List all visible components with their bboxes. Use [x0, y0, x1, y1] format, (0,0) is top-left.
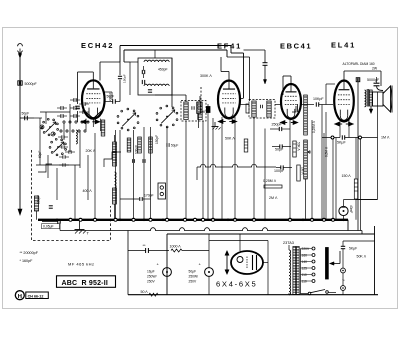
wire speaker return	[377, 106, 379, 120]
wire tuning vertical 5	[150, 127, 152, 220]
svg-text:50K Λ: 50K Λ	[225, 137, 235, 141]
capacitor 40mF electrolytic	[339, 206, 348, 215]
wire ift vertical 8	[202, 121, 204, 220]
tube EL41	[334, 81, 354, 122]
svg-text:20K Λ: 20K Λ	[86, 149, 96, 153]
junction tone a	[331, 136, 334, 139]
capacitor on AVC drop	[118, 75, 122, 77]
svg-text:ECH42: ECH42	[81, 41, 114, 50]
heater arrows rectifier	[225, 251, 229, 256]
capacitor trimmer bank left	[73, 98, 75, 102]
resistor padder coil 2	[101, 120, 105, 136]
wire right horizontal 199	[356, 199, 378, 201]
svg-text:23TA3: 23TA3	[283, 241, 294, 245]
svg-text:250W/: 250W/	[147, 275, 157, 279]
coil wave trap winding	[115, 172, 117, 188]
svg-text:CH 66-12: CH 66-12	[28, 294, 44, 298]
capacitor oscillator padder	[141, 70, 143, 74]
wire tuning vertical 2	[119, 130, 121, 220]
resistor 50K cathode box	[244, 139, 248, 152]
wire EF41 column 1	[207, 104, 209, 220]
svg-text:5KμF: 5KμF	[337, 141, 346, 145]
wire right vertical 336	[335, 138, 337, 220]
wire det vertical 2	[264, 129, 266, 220]
capacitor trimmer cross 1	[40, 125, 44, 129]
wire EF41 column 3	[221, 117, 223, 220]
wire rectifier right	[263, 262, 268, 264]
svg-text:EF41: EF41	[217, 42, 242, 51]
switch band wafer 1	[57, 128, 59, 130]
resistor AVC box	[197, 102, 201, 114]
diode plates EBC41	[292, 104, 298, 112]
capacitor 5KpF mains	[341, 245, 345, 247]
wire det vertical 1	[253, 117, 255, 220]
wire plate feed across	[231, 52, 244, 54]
wire step loop	[104, 152, 121, 167]
svg-text:150pF: 150pF	[123, 74, 127, 83]
lamp pilot 1	[341, 268, 346, 273]
wire tuning vertical 6	[166, 127, 168, 220]
wire lamp connections	[342, 251, 344, 268]
antenna A	[18, 44, 23, 47]
ground T	[79, 220, 81, 230]
coil oscillator tracking	[76, 130, 77, 144]
transformer power primary	[289, 250, 291, 295]
capacitor electrolytic 16uF	[163, 268, 172, 277]
svg-text:170pF: 170pF	[144, 194, 154, 198]
svg-text:EBC41: EBC41	[280, 42, 312, 51]
svg-text:300K Λ: 300K Λ	[200, 74, 212, 78]
svg-text:2M Λ: 2M Λ	[269, 196, 278, 200]
wire switch horizontal b	[36, 164, 80, 166]
switch band contacts row 2	[60, 130, 62, 132]
speaker cone	[383, 86, 391, 112]
wire switch vertical a	[39, 118, 41, 165]
capacitor 100pF	[280, 165, 282, 169]
wire 50uF drop	[208, 251, 210, 268]
resistor bias 1	[127, 138, 131, 152]
capacitor IFT1 tuning	[191, 106, 193, 110]
wire osc pad left 3	[56, 168, 58, 200]
svg-text:1000 Λ: 1000 Λ	[170, 245, 182, 249]
capacitor ECH42 grid coupling	[77, 72, 79, 104]
svg-text:160: 160	[302, 253, 308, 257]
wire IFT2 leads	[240, 104, 249, 106]
capacitor 0,05uF	[57, 219, 59, 223]
wire ECH42 plate up	[99, 62, 101, 81]
wire switch drop	[47, 155, 49, 178]
ground under EF41	[214, 122, 216, 127]
resistor IFT2 damping	[246, 104, 249, 113]
svg-text:50pF: 50pF	[22, 112, 30, 116]
wire oscillator right	[171, 58, 173, 107]
wire tuning vertical 3	[133, 130, 135, 220]
wire ECH42 screen	[104, 91, 112, 93]
capacitor variable tuning gang section 2	[176, 119, 178, 121]
logo box CH 66-12	[26, 292, 49, 299]
capacitor 50pF antenna coupling	[20, 117, 34, 119]
svg-text:250V: 250V	[147, 280, 156, 284]
svg-text:150 Λ: 150 Λ	[342, 174, 352, 178]
wire B+ rail	[128, 250, 146, 252]
wire mixer vertical	[94, 133, 96, 220]
svg-text:40mF: 40mF	[349, 205, 353, 213]
wire B+ long vertical	[357, 82, 359, 231]
wire EF41 column 2	[212, 118, 214, 220]
wire right vertical 360	[360, 138, 362, 231]
wire tuning vertical 1	[115, 130, 117, 220]
transformer output primary	[365, 90, 366, 107]
speaker driver	[373, 92, 384, 106]
capacitor 20000pF star	[145, 248, 147, 253]
junction tone b	[359, 136, 362, 139]
wire oscillator left	[130, 61, 138, 63]
switch band wafer 2	[65, 148, 67, 150]
transformer output secondary	[369, 90, 372, 106]
coil IFT2 secondary	[267, 101, 271, 117]
coil IFT1 secondary	[198, 102, 202, 120]
tube ECH42 bottom cone	[84, 111, 102, 119]
enclosure power supply top	[167, 233, 375, 235]
resistor oscillator grid leak	[148, 89, 152, 91]
svg-text:0,05μF: 0,05μF	[43, 225, 54, 229]
wire mains cap top	[343, 240, 375, 242]
wire switch leads	[300, 293, 308, 295]
wire EBC41 top	[290, 76, 292, 84]
svg-text:100pF: 100pF	[134, 145, 138, 154]
capacitor mid a	[131, 159, 133, 163]
svg-text:∿: ∿	[342, 278, 345, 282]
coil antenna 160pF hatched	[34, 196, 38, 211]
svg-text:50μF: 50μF	[171, 144, 178, 148]
logo circle H	[15, 291, 24, 300]
wire top double line	[120, 45, 231, 47]
capacitor 170pF	[139, 197, 141, 201]
resistor bias 2	[138, 137, 142, 153]
svg-text:0,25M Λ: 0,25M Λ	[312, 120, 316, 133]
capacitor AVC decoupling	[263, 62, 268, 64]
coil IFT2 primary	[252, 101, 256, 117]
resistor 0,25M horizontal	[264, 185, 282, 188]
switch voltage selector bar	[326, 248, 329, 280]
wire det vertical 5	[332, 138, 334, 220]
wire speaker return lower	[377, 120, 379, 200]
tap 110 bottom	[312, 280, 315, 283]
wire secondary bus with hops	[60, 228, 362, 231]
coil oscillator secondary	[144, 84, 169, 86]
switch mains	[308, 292, 311, 295]
svg-text:6X4-6X5: 6X4-6X5	[216, 280, 257, 289]
wire tuning vertical 4	[143, 127, 145, 220]
wire transformer bottom	[288, 293, 290, 295]
capacitor coupling box	[356, 78, 360, 82]
heater arrows EL41	[335, 122, 340, 126]
wire ECH42 grid top lead	[92, 72, 94, 80]
wire hop line mid	[197, 164, 276, 167]
svg-text:220V: 220V	[302, 247, 311, 251]
capacitor 50pF det	[279, 144, 281, 148]
wire rectifier rail	[209, 240, 268, 242]
enclosure power supply left	[166, 234, 168, 295]
junction dots on bus	[69, 218, 72, 221]
potentiometer volume	[304, 140, 308, 179]
tube EBC41	[281, 84, 301, 119]
wire switch horizontal a	[40, 111, 70, 113]
wire det vertical 4	[323, 133, 325, 220]
wire osc pad left 1	[87, 155, 89, 200]
svg-text:2W: 2W	[372, 67, 378, 71]
resistor EF41 screen dark	[206, 107, 210, 113]
capacitor 50pF mid	[166, 143, 168, 147]
capacitor 250pF	[278, 127, 280, 131]
wire EL41 grid lead	[325, 84, 327, 105]
ground arrow AVC	[263, 80, 266, 85]
coil wave trap upper	[113, 142, 117, 166]
wire pot vertical right	[311, 120, 313, 220]
wire AVC dashed	[200, 87, 202, 114]
svg-text:MF 465 kHz: MF 465 kHz	[68, 262, 95, 267]
trimmer box mid	[158, 183, 166, 199]
model box ABC R 952-II	[57, 276, 116, 288]
svg-text:50K Λ: 50K Λ	[357, 255, 367, 259]
wire EL41 plate to output	[343, 71, 345, 81]
svg-text:125: 125	[302, 266, 308, 270]
wire EF41 plate	[240, 98, 244, 100]
switch band contacts row 1	[63, 121, 65, 123]
capacitor oscillator tracker	[141, 80, 143, 84]
svg-text:140: 140	[302, 260, 308, 264]
heater arrows EF41	[218, 119, 223, 123]
svg-text:* 160pF: * 160pF	[20, 259, 34, 263]
resistor 50 ohm	[149, 293, 158, 296]
wire right vertical 322	[321, 105, 323, 220]
capacitor variable tuning gang section 1	[137, 122, 139, 124]
tube EF41	[218, 81, 240, 119]
svg-text:H: H	[18, 294, 22, 300]
enclosure power supply right	[374, 226, 376, 295]
wire grid line into switch	[34, 117, 42, 119]
svg-text:60pF: 60pF	[38, 151, 42, 158]
wire right vertical 326	[325, 112, 327, 220]
wire right vertical 356	[355, 138, 357, 180]
ground arrow transformer	[370, 107, 372, 111]
svg-text:50K Λ: 50K Λ	[297, 142, 301, 152]
svg-text:ABC: ABC	[62, 280, 78, 287]
wire wave trap	[114, 135, 116, 142]
junction filled dots on bus	[56, 219, 59, 222]
wire switch vertical e	[79, 130, 81, 168]
heater arrows ECH42	[81, 120, 86, 124]
IF transformer 1 enclosure	[181, 101, 206, 122]
wire feed drop left	[127, 231, 129, 295]
resistor 150 ohm	[354, 179, 357, 199]
svg-text:450pF: 450pF	[158, 68, 168, 72]
svg-text:50 Λ: 50 Λ	[141, 290, 149, 294]
wire left step	[38, 164, 52, 172]
tube ECH42	[82, 80, 105, 118]
capacitor antenna 5000pF	[18, 81, 22, 85]
svg-text:R 952-II: R 952-II	[82, 280, 109, 287]
coil oscillator box	[138, 58, 172, 95]
wire EF41 grid top	[228, 72, 230, 81]
svg-text:16μF: 16μF	[147, 270, 155, 274]
svg-text:1M Λ: 1M Λ	[381, 136, 390, 140]
transformer power core	[293, 247, 296, 295]
svg-text:ALTOPARL DIAM 160: ALTOPARL DIAM 160	[343, 62, 375, 66]
wire IFT1 top feed	[185, 95, 187, 102]
IF transformer 2 enclosure	[249, 100, 275, 119]
wire AVC drop continuation	[119, 62, 121, 75]
coil oscillator primary	[144, 60, 169, 62]
resistor 400 ohm lower	[113, 188, 117, 204]
wire ift vertical 7	[185, 121, 187, 220]
wire switch vertical d	[69, 104, 71, 152]
svg-text:110: 110	[302, 273, 307, 277]
wire secondary winding	[300, 249, 302, 282]
transformer output core	[366, 89, 368, 107]
svg-text:110: 110	[302, 279, 307, 283]
svg-text:150pF: 150pF	[155, 135, 159, 144]
resistor bias 3	[149, 137, 153, 153]
wire oscillator top	[154, 50, 156, 58]
svg-text:5000pF: 5000pF	[25, 82, 38, 86]
resistor 1000 ohm	[171, 249, 182, 252]
svg-text:5000pF: 5000pF	[367, 78, 380, 82]
capacitor beside coil	[49, 205, 53, 207]
capacitor trimmer cross 2	[51, 132, 55, 136]
capacitor 5KpF tone	[341, 135, 343, 139]
wire switch vertical b	[45, 112, 47, 124]
wire EL41 cathode drops	[339, 122, 341, 138]
capacitor mid b	[142, 159, 144, 163]
capacitor IFT2 tuning	[259, 105, 261, 109]
svg-text:250W/: 250W/	[189, 275, 199, 279]
tube rectifier 6X4	[231, 251, 263, 274]
wire det vertical 3	[289, 118, 291, 220]
svg-text:EL41: EL41	[331, 41, 356, 50]
coil IFT3 secondary hatched	[304, 95, 308, 135]
heater arrows EBC41	[280, 120, 285, 124]
svg-text:50pF: 50pF	[107, 95, 115, 99]
wire EF41 column 4	[234, 117, 236, 220]
wire antenna down-lead	[19, 58, 21, 209]
resistor 1M vertical	[297, 165, 300, 181]
enclosure power supply bottom	[128, 294, 378, 296]
wire hook to speaker	[377, 87, 384, 91]
svg-text:5KμF: 5KμF	[349, 247, 357, 251]
resistor 50K vertical right	[293, 141, 296, 157]
svg-text:400 Λ: 400 Λ	[83, 189, 93, 193]
svg-text:160pF: 160pF	[37, 195, 41, 204]
svg-text:10KpF: 10KpF	[313, 97, 324, 101]
enclosure dashed tuning unit	[32, 150, 111, 241]
svg-text:**: **	[143, 243, 147, 248]
svg-text:** 20000pF: ** 20000pF	[20, 251, 39, 255]
capacitor padder bank lower	[61, 135, 63, 139]
svg-text:50μF: 50μF	[189, 270, 197, 274]
wire tone line	[322, 137, 340, 139]
lamp pilot 2	[341, 286, 346, 291]
svg-text:250V: 250V	[189, 280, 198, 284]
capacitor 5000pF output	[374, 82, 380, 84]
coil IFT1 primary	[184, 102, 188, 120]
wire rectifier top	[239, 234, 241, 251]
switch wiper arrow	[333, 263, 340, 265]
wire main ground bus	[38, 219, 348, 221]
wire ECH42 pin leads	[85, 119, 87, 130]
wire switch vertical c	[63, 123, 65, 140]
wire 40mF leads	[343, 200, 345, 207]
capacitor electrolytic 50uF	[205, 268, 214, 277]
wire osc pad left 2	[74, 165, 76, 220]
svg-text:50K Λ: 50K Λ	[199, 110, 209, 114]
